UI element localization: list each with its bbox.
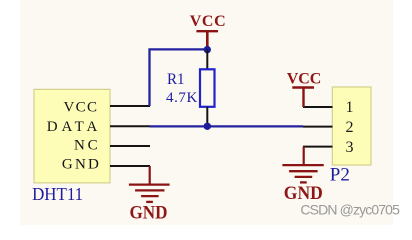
ground GND (right, from P2 pin 3) (282, 147, 323, 204)
DHT11 pin name DATA (47, 119, 98, 135)
R1 designator (167, 71, 185, 88)
svg-text:R1: R1 (167, 71, 185, 88)
ground GND (left, from DHT11 GND pin) (129, 166, 170, 223)
DHT11 pin name NC (74, 138, 98, 154)
P2 pin number 3 (346, 139, 354, 156)
svg-text:4.7K: 4.7K (166, 90, 197, 106)
svg-text:VCC: VCC (287, 71, 322, 88)
power symbol VCC (top) (190, 13, 226, 50)
DHT11 designator (32, 184, 83, 204)
svg-text:VCC: VCC (190, 13, 226, 30)
svg-text:VCC: VCC (64, 99, 98, 115)
svg-text:DHT11: DHT11 (32, 184, 83, 204)
svg-text:P2: P2 (330, 164, 350, 185)
power symbol VCC (right, to P2 pin 1) (287, 71, 322, 108)
P2 pin stub 3 (303, 146, 333, 148)
svg-text:GND: GND (62, 156, 99, 172)
P2 pin stub 2 (303, 126, 333, 128)
svg-text:2: 2 (346, 119, 354, 136)
P2 pin stub 1 (303, 106, 333, 108)
svg-text:1: 1 (346, 99, 354, 116)
DHT11 pin stub VCC (110, 105, 150, 107)
R1 value 4.7K (166, 90, 197, 106)
DHT11 pin stub NC (110, 145, 150, 147)
sensor DHT11 body (34, 89, 110, 183)
resistor R1 bottom lead (206, 107, 208, 126)
P2 pin number 1 (346, 99, 354, 116)
DHT11 pin name GND (62, 156, 99, 172)
P2 designator (330, 164, 350, 185)
DHT11 pin stub GND (110, 165, 150, 167)
resistor R1 top lead (206, 49, 208, 69)
connector P2 body (332, 87, 371, 165)
resistor R1 body (200, 69, 215, 107)
DHT11 pin stub DATA (110, 125, 150, 127)
P2 pin number 2 (346, 119, 354, 136)
node junction at R1 top (204, 46, 211, 53)
DHT11 pin name VCC (64, 99, 98, 115)
watermark CSDN @zyc0705 (300, 201, 400, 217)
node junction on DATA net (204, 123, 211, 130)
svg-text:GND: GND (130, 202, 168, 223)
wire VCC net (DHT11 VCC up and over to R1 top) (150, 49, 208, 106)
wire DATA net (DHT11 DATA across to P2 pin 2) (150, 125, 304, 127)
svg-text:CSDN @zyc0705: CSDN @zyc0705 (300, 201, 400, 217)
svg-text:3: 3 (346, 139, 354, 156)
